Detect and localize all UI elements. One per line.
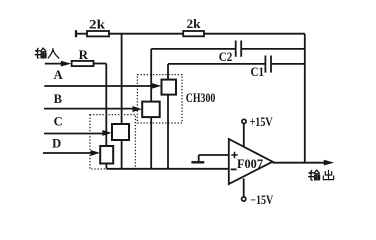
wire: vertical from C2 line down to switch B bbox=[150, 49, 152, 102]
op-amp U1 F007 triangle bbox=[229, 139, 273, 184]
switch A (analog gate square) bbox=[162, 80, 177, 95]
label: output 输出 (drawn glyphs) bbox=[309, 170, 334, 180]
dashed box: lower switch group (C,D) bbox=[90, 115, 135, 169]
label: + input marking bbox=[231, 152, 237, 158]
capacitor C2 bbox=[236, 41, 242, 57]
wire: R lead to corner bbox=[94, 63, 107, 65]
ground: stub on non-inverting input bbox=[191, 155, 204, 162]
resistor R bbox=[72, 61, 94, 66]
svg-text:F007: F007 bbox=[237, 157, 263, 171]
switch C (analog gate square) bbox=[112, 124, 129, 140]
svg-text:C2: C2 bbox=[219, 50, 233, 64]
wire: feedback vertical to output node bbox=[304, 34, 306, 163]
wire: vertical from top line down to switch C bbox=[121, 34, 123, 124]
wire: line B with arrow into switch B bbox=[44, 106, 142, 112]
svg-text:C1: C1 bbox=[251, 65, 265, 79]
wire: C1 branch left segment from switch A lead bbox=[168, 63, 265, 65]
svg-text:A: A bbox=[54, 68, 63, 82]
wire: line D with arrow into switch D bbox=[43, 150, 100, 156]
svg-text:C: C bbox=[54, 115, 63, 129]
wire: top line between the two 2k resistors bbox=[109, 33, 183, 35]
switch B (analog gate square) bbox=[142, 102, 160, 118]
wire: non-inverting input lead bbox=[199, 154, 229, 156]
wire: C2 branch right segment to feedback vertical bbox=[242, 48, 305, 50]
wire: C1 branch right segment to feedback vertical bbox=[272, 63, 305, 65]
dashed box: upper switch group (A,B) CH300 bbox=[137, 75, 182, 123]
wire: vertical from C1 line down to switch A bbox=[167, 64, 169, 80]
wire: switch B output down to summing bus bbox=[150, 117, 152, 169]
svg-text:R: R bbox=[79, 47, 89, 62]
label: - input marking bbox=[231, 168, 237, 170]
svg-text:+15V: +15V bbox=[250, 115, 273, 129]
wire: negative supply lead bbox=[243, 178, 245, 197]
resistor 2k (R1, left) bbox=[87, 31, 109, 36]
wire: C2 branch left segment from switch B lead bbox=[151, 48, 235, 50]
wire: switch D output down to summing bus bbox=[105, 164, 107, 169]
wire: line C with arrow into switch C bbox=[44, 130, 112, 136]
wire: switch A output down to summing bus bbox=[167, 95, 169, 169]
switch D (analog gate square) bbox=[100, 146, 113, 164]
wire: input lead with arrow into R bbox=[45, 61, 71, 67]
wire: summing bus to op-amp inverting input bbox=[106, 168, 228, 170]
node: +15V supply terminal circle bbox=[242, 119, 246, 123]
wire: vertical from R down to switch D bbox=[105, 64, 107, 147]
wire: switch C output down to summing bus bbox=[121, 140, 123, 169]
wire: positive supply lead bbox=[243, 123, 245, 147]
svg-text:2k: 2k bbox=[187, 16, 202, 31]
node: open input terminal tick of R1 bbox=[75, 30, 77, 37]
wire: output line with arrow bbox=[273, 160, 334, 166]
wire: top line from R2 to feedback corner bbox=[204, 33, 305, 35]
node: -15V supply terminal circle bbox=[242, 197, 246, 201]
wire: line A with arrow into switch A bbox=[44, 83, 161, 89]
wire: top feedback line left segment bbox=[76, 33, 87, 35]
svg-text:CH300: CH300 bbox=[186, 90, 216, 105]
svg-text:B: B bbox=[54, 92, 62, 106]
svg-text:−15V: −15V bbox=[250, 193, 273, 207]
capacitor C1 bbox=[265, 56, 271, 73]
label: input 输入 (drawn glyphs) bbox=[35, 48, 59, 58]
svg-text:D: D bbox=[52, 137, 61, 151]
svg-text:2k: 2k bbox=[89, 17, 106, 32]
resistor 2k (R2, right) bbox=[183, 31, 204, 36]
